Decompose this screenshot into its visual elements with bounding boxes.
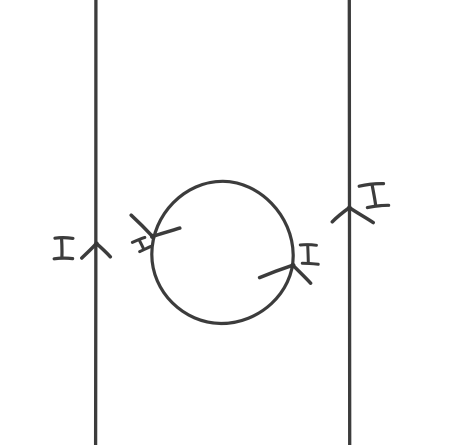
label I (current in left wire) <box>54 238 73 259</box>
current arrow on wire W2 (upward) <box>332 206 373 223</box>
current arrow on loop L1, right side (pointing up along loop) <box>260 263 311 283</box>
label I (loop current, left, tilted) <box>132 237 150 251</box>
current arrow on wire W1 (upward) <box>82 241 111 258</box>
wire W1 (left vertical conductor) <box>94 0 98 445</box>
loop L1 (circular conductor) <box>152 181 293 323</box>
label I (current in right wire, tilted) <box>359 184 388 208</box>
label I (loop current, right) <box>300 245 318 265</box>
current arrow on loop L1, left side (pointing down along loop) <box>131 215 180 239</box>
wire W2 (right vertical conductor) <box>348 0 352 445</box>
